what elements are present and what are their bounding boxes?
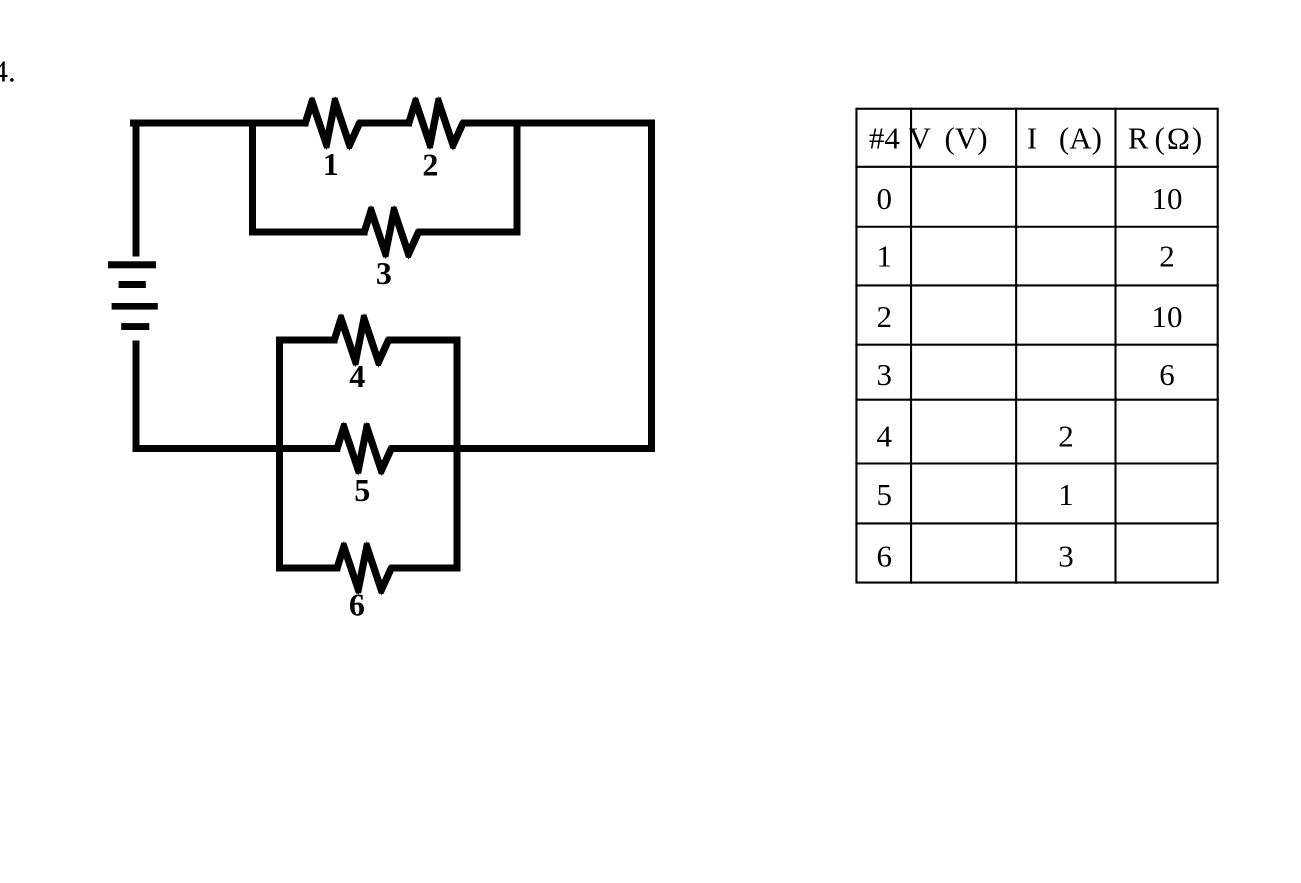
svg-text:#4: #4 [869, 120, 901, 155]
table row line 4 [855, 399, 1218, 401]
svg-text:(Ω): (Ω) [1155, 120, 1205, 155]
wire battery bottom lead [133, 344, 140, 449]
resistor R5 [333, 422, 395, 477]
svg-text:10: 10 [1152, 299, 1183, 334]
svg-text:1: 1 [1058, 477, 1074, 512]
data table frame [856, 109, 1217, 583]
wire between R1 and R2 [361, 120, 409, 127]
wire top horizontal left segment [134, 120, 306, 127]
wire R6 branch left segment [280, 565, 337, 572]
svg-text:2: 2 [877, 299, 893, 334]
wire top horizontal right segment [465, 120, 652, 127]
wire R6 branch right segment [393, 565, 457, 572]
svg-text:1: 1 [877, 239, 893, 274]
wire bottom horizontal right segment [393, 445, 652, 452]
svg-text:3: 3 [376, 255, 392, 291]
svg-text:3: 3 [1058, 538, 1074, 573]
table column line 3 [1114, 108, 1116, 584]
table row line 1 [855, 226, 1218, 228]
table row line 3 [855, 344, 1218, 346]
svg-text:6: 6 [877, 538, 893, 573]
svg-text:(A): (A) [1059, 120, 1102, 155]
table row line header [855, 166, 1218, 168]
svg-text:4: 4 [877, 419, 893, 454]
svg-text:(V): (V) [945, 120, 988, 155]
wire R3 branch left segment [253, 229, 365, 236]
resistor R6 [333, 541, 395, 596]
svg-text:5: 5 [877, 477, 893, 512]
resistor R4 [331, 313, 393, 368]
svg-text:10: 10 [1152, 181, 1183, 216]
svg-text:V: V [909, 120, 932, 155]
resistor R1 [302, 96, 364, 151]
resistor R3 [361, 205, 423, 260]
svg-text:I: I [1027, 120, 1037, 155]
wire R4 branch left segment [280, 337, 335, 344]
wire battery top lead [133, 123, 140, 253]
resistor R2 [405, 96, 467, 151]
svg-text:4: 4 [349, 358, 365, 394]
svg-text:R: R [1128, 120, 1149, 155]
svg-text:6: 6 [1159, 357, 1175, 392]
battery B1 [108, 261, 158, 330]
svg-text:4.: 4. [0, 54, 16, 89]
svg-text:2: 2 [422, 147, 438, 183]
node C junction left of parallel R4R5R6 [276, 340, 283, 568]
wire bottom horizontal left segment [136, 445, 337, 452]
table column line 2 [1015, 108, 1017, 584]
table column line 1 [910, 108, 912, 584]
node A junction left of parallel R1R2/R3 [249, 123, 256, 232]
svg-text:1: 1 [323, 146, 339, 182]
wire R3 branch right segment [420, 229, 517, 236]
wire R4 branch right segment [390, 337, 457, 344]
table row line 2 [855, 284, 1218, 286]
table row line 6 [855, 522, 1218, 524]
wire right vertical [648, 123, 655, 449]
svg-text:3: 3 [877, 357, 893, 392]
svg-text:2: 2 [1058, 419, 1074, 454]
svg-text:2: 2 [1159, 239, 1175, 274]
svg-text:5: 5 [354, 472, 370, 508]
table row line 5 [855, 462, 1218, 464]
node D junction right of parallel R4R5R6 [454, 340, 461, 568]
svg-text:0: 0 [877, 181, 893, 216]
node B junction right of parallel R1R2/R3 [514, 123, 521, 232]
svg-text:6: 6 [349, 587, 365, 623]
